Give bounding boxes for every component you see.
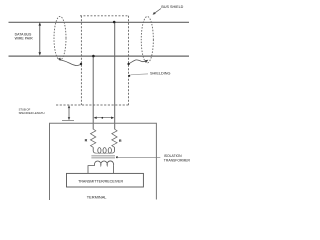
svg-text:BUS SHIELD: BUS SHIELD (161, 5, 183, 9)
svg-text:TRANSFORMER: TRANSFORMER (164, 159, 191, 163)
svg-text:R: R (119, 139, 122, 143)
svg-text:SPECIFIED LENGTH: SPECIFIED LENGTH (19, 111, 45, 115)
svg-text:TRANSMITTER/RECEIVER: TRANSMITTER/RECEIVER (78, 179, 123, 183)
svg-text:TERMINAL: TERMINAL (87, 194, 108, 199)
svg-text:SHIELDING: SHIELDING (150, 72, 171, 76)
svg-text:WIRE PAIR: WIRE PAIR (15, 36, 33, 40)
svg-text:STUB OF: STUB OF (19, 107, 31, 111)
svg-text:ISOLATION: ISOLATION (164, 154, 182, 158)
svg-text:R: R (85, 139, 88, 143)
